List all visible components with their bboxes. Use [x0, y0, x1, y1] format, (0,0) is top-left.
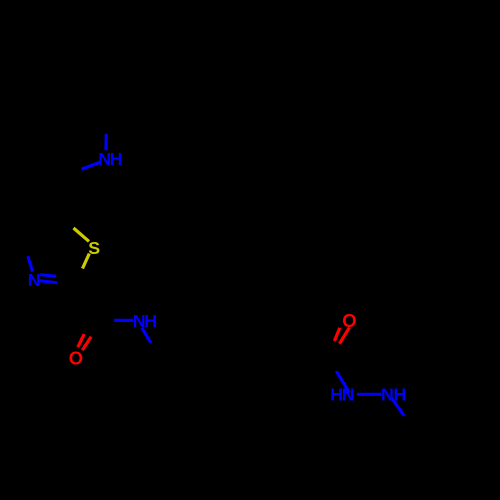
bond C(O)-NH amide (N half) [114, 319, 133, 322]
double bond C=O right carbonyl inner line (O half) [334, 328, 339, 341]
double bond C=O right carbonyl main line (O half) [340, 328, 350, 344]
bond CH2-NH (N half) [82, 162, 100, 169]
bond C(O)-NH hydrazide (N half) [336, 371, 349, 393]
svg-text:HN: HN [330, 384, 353, 404]
bond N3-C4 (N half) thiazole [28, 256, 33, 271]
double bond N3=C2 main line (N half) [39, 281, 58, 283]
double bond N3=C2 inner line (N half) [40, 275, 56, 277]
bond CH3-NH (N half) top methylamino [104, 134, 108, 151]
svg-text:NH: NH [133, 311, 156, 331]
double bond C=O left carbonyl line 2 (O half) [82, 337, 91, 351]
svg-text:N: N [28, 270, 40, 290]
bond NH-CH3 (N half) [391, 398, 404, 416]
svg-text:NH: NH [98, 149, 121, 169]
bond S-C2 (S half) thiazole [83, 254, 90, 269]
svg-text:O: O [69, 348, 83, 369]
double bond C=O left carbonyl line 1 (O half) [78, 334, 84, 347]
bond NH-CH2 amide (N half) [142, 328, 151, 343]
bond C5-S (S half) thiazole [74, 228, 90, 241]
bond N-N hydrazide (shared, both halves blue) [357, 393, 381, 396]
